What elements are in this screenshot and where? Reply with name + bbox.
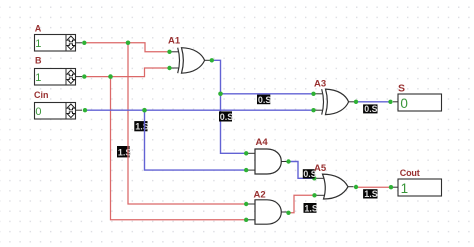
svg-text:0.S: 0.S — [364, 104, 377, 114]
input Cin (logic toggle, value 0) — [34, 90, 87, 119]
svg-text:A: A — [35, 23, 42, 33]
wire A branch to A2 top input — [128, 43, 245, 204]
wire A5 output to Cout — [357, 186, 390, 188]
wire B branch to A2 bottom input — [111, 77, 246, 220]
svg-text:1: 1 — [35, 38, 41, 50]
state label 1.S on A branch wire — [117, 146, 131, 158]
wire A1 output branch to A4 top input — [221, 94, 246, 154]
input A (logic toggle, value 1) — [35, 23, 87, 51]
svg-text:0.S: 0.S — [220, 112, 234, 122]
wire A4 output to A5 top input — [289, 162, 313, 179]
input B (logic toggle, value 1) — [35, 55, 87, 85]
wire A3 output to S — [357, 101, 389, 103]
svg-text:A3: A3 — [314, 79, 326, 90]
svg-text:1.S: 1.S — [135, 122, 149, 132]
xor gate A3 — [311, 79, 358, 115]
junction node on net B at x=110.5 — [108, 74, 113, 79]
output S (logic probe, value 0) — [388, 83, 441, 111]
svg-text:1.S: 1.S — [304, 203, 318, 213]
state label 1.S at A5 bottom input (A2 output net) — [304, 203, 318, 213]
svg-text:0: 0 — [400, 96, 408, 111]
svg-text:A4: A4 — [256, 137, 269, 148]
xor gate A1 — [167, 36, 214, 74]
svg-text:1.S: 1.S — [118, 148, 132, 158]
state label 0.S on A1 output net (A3 input wire) — [257, 95, 271, 105]
svg-text:1: 1 — [35, 72, 41, 84]
wire A to A1 top input (net A) — [85, 43, 168, 52]
svg-text:0.S: 0.S — [303, 169, 316, 179]
output Cout (logic probe, value 1) — [389, 168, 442, 196]
state label 0.S at A5 top input (A4 output net) — [303, 169, 317, 179]
state label 1.S on A5 output wire (Cout net) — [363, 189, 378, 199]
wire A2 output to A5 bottom input — [289, 195, 313, 213]
svg-text:1.S: 1.S — [364, 189, 378, 199]
wire B to A1 bottom input (net B) — [85, 68, 168, 77]
junction node on net A at x=128 — [126, 41, 131, 46]
svg-text:A2: A2 — [254, 190, 266, 201]
svg-text:Cin: Cin — [34, 90, 49, 100]
junction node on A1 output net at x=220.5 — [218, 92, 223, 97]
svg-text:1: 1 — [401, 181, 409, 196]
svg-text:Cout: Cout — [400, 168, 420, 178]
state label 0.S on A3 output wire (S net) — [363, 104, 378, 114]
wire Cin branch to A4 bottom input — [145, 110, 246, 170]
svg-text:B: B — [35, 55, 42, 65]
svg-text:S: S — [398, 83, 405, 95]
wire Cin to A3 bottom input (net Cin) — [87, 109, 312, 111]
junction node on net Cin at x=144.5 — [142, 108, 147, 113]
svg-text:0: 0 — [35, 106, 41, 118]
wire A1 output to A3 top input — [213, 60, 312, 94]
svg-text:A1: A1 — [168, 36, 181, 47]
or gate A5 — [312, 163, 358, 199]
and gate A4 — [244, 137, 291, 174]
and gate A2 — [244, 190, 291, 225]
state label 1.S on Cin branch wire — [134, 121, 149, 132]
svg-text:0.S: 0.S — [258, 95, 272, 105]
state label 0.S on A1 output vertical at Cin crossing — [219, 111, 233, 122]
